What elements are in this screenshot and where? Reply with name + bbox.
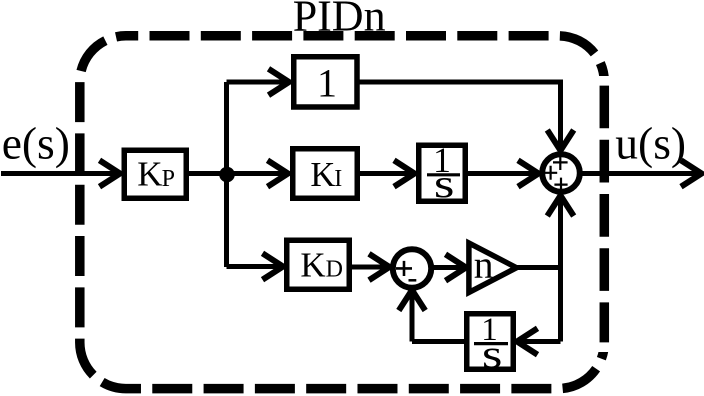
svg-text:s: s — [434, 162, 455, 206]
wire summing junction to output u(s) — [582, 171, 701, 176]
plus sign in derivative summing circle — [396, 261, 412, 276]
block 1 (proportional) — [294, 57, 357, 107]
arrowhead up into derivative summing circle bottom — [399, 290, 425, 311]
plus sign top in summing junction — [553, 155, 568, 170]
arrowhead down into summing junction — [547, 130, 573, 151]
arrowhead left into feedback 1/s — [517, 328, 538, 354]
fraction bar integrator — [427, 173, 460, 176]
plus sign bottom in summing junction — [554, 178, 567, 190]
wire node A vertical branch — [224, 82, 229, 267]
wire feedback 1/s to derivative summing circle — [412, 291, 465, 342]
wire feedback to 1/s block — [518, 339, 561, 344]
wire gain n output junction vertical — [517, 197, 561, 342]
block KD — [287, 240, 350, 289]
arrowhead into KP — [100, 160, 121, 186]
wire KD to derivative summing circle — [351, 265, 389, 270]
wire KP to node A — [187, 171, 227, 176]
arrowhead up into summing junction bottom — [547, 196, 573, 217]
block integrator 1/s — [419, 145, 466, 201]
block KI — [293, 149, 358, 199]
arrowhead output u(s) — [681, 160, 702, 186]
svg-text:1: 1 — [317, 61, 337, 106]
svg-text:D: D — [326, 257, 343, 283]
derivative summing circle — [393, 249, 431, 287]
wire block 1 to summing junction top — [359, 82, 561, 150]
svg-text:I: I — [334, 166, 342, 192]
dashed boundary box PIDn — [80, 36, 605, 389]
dashed border right-edge rephase cover — [599, 76, 611, 352]
arrowhead into derivative summing circle — [369, 254, 390, 280]
gain triangle n — [469, 243, 517, 293]
svg-text:s: s — [482, 332, 503, 376]
arrowhead into KI — [268, 160, 289, 186]
main summing junction circle — [542, 154, 580, 192]
feedback block 1/s — [467, 314, 514, 370]
svg-text:e(s): e(s) — [2, 117, 70, 168]
svg-text:K: K — [300, 246, 325, 285]
svg-text:u(s): u(s) — [615, 117, 686, 168]
node A branch dot — [219, 167, 235, 183]
wire input e(s) to KP — [1, 171, 120, 176]
svg-text:P: P — [162, 166, 175, 192]
fraction bar feedback — [474, 342, 508, 345]
wire node A to KD — [227, 264, 284, 269]
arrowhead into integrator 1/s — [394, 160, 415, 186]
wire node A to KI — [231, 171, 288, 176]
wire node A to block 1 — [227, 80, 290, 85]
svg-text:K: K — [310, 156, 335, 194]
block KP — [124, 150, 186, 198]
svg-text:PIDn: PIDn — [293, 0, 386, 41]
wire derivative summing circle to gain n — [433, 265, 465, 270]
wire integrator 1/s to summing junction — [467, 171, 538, 176]
dashed border right edge — [600, 86, 610, 343]
minus sign in derivative summing circle — [409, 279, 417, 282]
arrowhead into summing junction left — [518, 160, 539, 186]
plus sign left in summing junction — [544, 166, 557, 180]
arrowhead into KD — [263, 253, 284, 279]
svg-text:n: n — [474, 243, 494, 287]
wire KI to integrator 1/s — [359, 171, 414, 176]
arrowhead into gain n — [446, 254, 467, 280]
svg-text:K: K — [137, 154, 162, 193]
arrowhead into block 1 — [269, 69, 290, 95]
